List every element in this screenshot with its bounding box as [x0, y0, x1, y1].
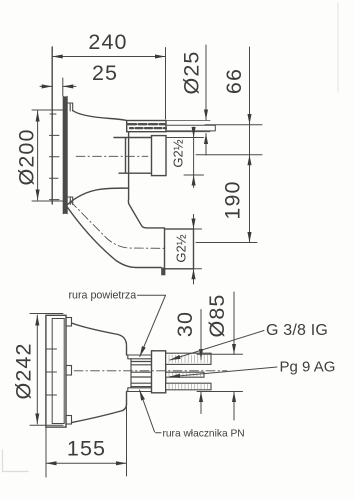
pipe end foot [161, 268, 165, 276]
svg-text:Ø242: Ø242 [12, 343, 36, 400]
svg-text:25: 25 [92, 61, 118, 85]
leader G 3/8 [170, 331, 264, 361]
scan artifact box bottom left [3, 450, 29, 472]
dia 85 extension lines [197, 354, 243, 391]
dia 200 dim line [37, 111, 39, 200]
clamp tab bottom [67, 197, 73, 205]
middle tube (Pg 9) [166, 372, 204, 377]
extension line collar axis right (66/190 boundary) [196, 154, 262, 156]
pipe bore lines and end cap [166, 125, 215, 131]
svg-text:rura włacznika PN: rura włacznika PN [163, 429, 245, 440]
svg-text:Pg 9 AG: Pg 9 AG [280, 359, 336, 376]
leader Pg 9 [170, 367, 278, 377]
flange tab middle [66, 366, 72, 376]
cone top edge bottom drawing [72, 323, 127, 345]
svg-text:G2½: G2½ [170, 139, 185, 167]
main axis centerline bottom drawing [74, 370, 227, 372]
shared dim line 66 and 190 [249, 47, 251, 124]
G2 1/2 dim upper: extension lines [167, 138, 204, 176]
cone right face segments bottom drawing [126, 346, 128, 404]
extension of face down for 155 dim [126, 404, 128, 476]
30 dim line segments [200, 310, 202, 360]
nut upper outlet [152, 136, 167, 176]
cone bottom edge bottom drawing [72, 404, 127, 423]
svg-text:66: 66 [222, 68, 246, 94]
wall hatch ticks [50, 114, 60, 200]
svg-text:30: 30 [173, 311, 197, 337]
svg-text:Ø25: Ø25 [179, 51, 203, 95]
bottom tube (rura wlacznika) [166, 383, 211, 390]
155 dim line [46, 462, 127, 464]
extension line lower outlet axis right (bottom ref 190) [196, 242, 257, 244]
G2 1/2 dim upper: dim line with outside arrows [193, 127, 195, 138]
svg-text:190: 190 [221, 180, 245, 219]
scan artifact vertical line top right [337, 3, 339, 92]
dia 200 extension lines [32, 110, 64, 201]
elbow centerline [70, 201, 164, 248]
clamp tab top [67, 103, 73, 111]
collar upper outlet [114, 138, 152, 174]
air tube (rura powietrza) [166, 353, 211, 364]
svg-text:G 3/8 IG: G 3/8 IG [266, 322, 328, 339]
elbow inner edge [128, 199, 164, 228]
svg-text:G2½: G2½ [174, 234, 189, 262]
flange outer rect [46, 315, 66, 427]
collar lower outlet [165, 229, 194, 269]
flange tab top [66, 318, 72, 327]
svg-text:155: 155 [67, 437, 106, 461]
leader rura wlacznika [156, 432, 162, 434]
thread hatch marks [128, 123, 165, 125]
flange plate (side view bar) [63, 96, 67, 213]
leader rura powietrza [138, 294, 166, 296]
centerline upper outlet [76, 155, 148, 157]
cone top edge [73, 111, 127, 121]
svg-text:Ø200: Ø200 [15, 129, 39, 186]
155 dim left extension [45, 426, 47, 477]
pipe outer extension thin lines [166, 121, 210, 132]
svg-text:rura powietrza: rura powietrza [69, 290, 137, 302]
svg-text:Ø85: Ø85 [205, 294, 229, 338]
flange tab bottom [66, 416, 72, 425]
dia 242 dim line [36, 315, 38, 424]
threaded pipe G3/4 top outlet [127, 121, 166, 132]
extension line pipe axis right (top ref for 66) [205, 124, 262, 126]
flange slot ticks [47, 349, 57, 395]
socket body [127, 355, 152, 392]
connection block [152, 351, 166, 393]
dia 85 dim line segments [233, 292, 235, 354]
dia 25 dim line lower segment [205, 134, 207, 156]
flange inner rect [52, 319, 64, 424]
svg-text:240: 240 [88, 30, 127, 54]
dia 25 dim line upper segment [205, 45, 207, 120]
extension line for 25 dim [62, 78, 64, 96]
wall line (left extension line) [51, 47, 53, 204]
cone right face upper segment [128, 132, 130, 199]
cone bottom edge [67, 188, 128, 205]
dimension line 25 (outside arrows) [40, 85, 52, 87]
dia 242 extension lines [30, 314, 63, 426]
collar lower extension stubs [194, 229, 202, 269]
G2 1/2 dim lower arrows [193, 215, 195, 230]
socket interior tube lines [131, 359, 152, 388]
extension line right end of 240 dim [165, 48, 167, 120]
dimension line 240 [52, 56, 165, 58]
elbow outer edge [67, 207, 161, 268]
